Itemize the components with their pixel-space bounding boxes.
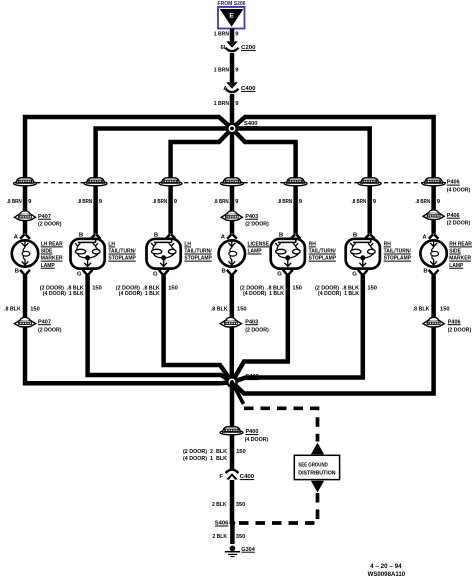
svg-text:150: 150: [236, 449, 246, 455]
svg-text:G: G: [352, 271, 357, 277]
svg-text:G: G: [277, 271, 282, 277]
svg-text:.8 BRN: .8 BRN: [214, 199, 229, 205]
splice S400: [227, 121, 258, 133]
svg-text:.8 BLK: .8 BLK: [413, 307, 430, 313]
svg-text:150: 150: [367, 285, 377, 291]
off-page triangle symbol E: [218, 7, 245, 29]
svg-text:1 BRN: 1 BRN: [214, 32, 229, 38]
pin B terminal of license lamp: [222, 269, 237, 276]
wire label .8 BRN 9 col2: [77, 199, 102, 205]
svg-text:9: 9: [28, 199, 32, 205]
wire LH stoplamp2 G to S402 .8 BLK 150: [164, 275, 232, 382]
svg-text:A: A: [14, 234, 19, 240]
pin B terminal of LH tail/turn stoplamp 1: [79, 232, 101, 239]
wire (dashed) S402 to see-ground-distribution: [232, 382, 244, 404]
lamp RH rear side marker lamp: [420, 240, 472, 268]
svg-text:150: 150: [168, 285, 178, 291]
grommet col5 at body panel: [284, 181, 307, 186]
svg-text:150: 150: [237, 307, 247, 313]
svg-text:(4 DOOR) 1 BLK: (4 DOOR) 1 BLK: [243, 291, 285, 297]
svg-text:(2 DOOR): (2 DOOR): [448, 327, 472, 333]
footer date and drawing number: [368, 564, 406, 578]
svg-text:(2 DOOR): (2 DOOR): [245, 327, 269, 333]
wire (dashed) ground distribution to S406: [237, 493, 318, 523]
svg-text:E: E: [229, 13, 234, 20]
svg-text:(4 DOOR) 1 BLK: (4 DOOR) 1 BLK: [318, 291, 360, 297]
connector P403 (2 DOOR) bottom: [220, 317, 269, 333]
body panel line (dashed): [14, 182, 446, 184]
wire RH marker B to S402 .8 BLK 150: [232, 275, 434, 393]
svg-text:9: 9: [174, 199, 178, 205]
pin G terminal of RH tail/turn stoplamp 1: [277, 270, 292, 278]
wire S400 to license lamp: [230, 129, 235, 234]
grommet col4 at body panel: [221, 181, 244, 186]
svg-text:1 BRN: 1 BRN: [214, 101, 229, 107]
svg-text:350: 350: [236, 534, 246, 540]
wire RH stoplamp1 G to S402 .8 BLK 150: [232, 275, 288, 382]
svg-text:A: A: [223, 86, 228, 92]
svg-text:2 BLK: 2 BLK: [212, 502, 227, 508]
svg-text:A: A: [221, 234, 226, 240]
svg-text:9: 9: [235, 67, 239, 73]
svg-text:WS0098A110: WS0098A110: [368, 572, 406, 578]
svg-text:.8 BLK: .8 BLK: [4, 307, 21, 313]
pin A terminal of LH rear side marker lamp: [14, 234, 30, 240]
wire LH marker B to S402 .8 BLK 150: [25, 275, 232, 383]
lamp RH tail/turn stoplamp 1: [271, 239, 336, 269]
grommet col2 at body panel: [84, 181, 107, 186]
connector C400 pin A: [223, 82, 256, 92]
svg-text:9: 9: [299, 199, 303, 205]
wire 1 BRN 9 from C200 to C400: [214, 53, 240, 85]
svg-text:6L: 6L: [221, 45, 228, 51]
svg-text:B: B: [279, 232, 283, 238]
svg-text:.8 BRN: .8 BRN: [352, 199, 367, 205]
wire LH stoplamp1 G to S402 .8 BLK 150: [88, 275, 232, 382]
svg-text:.8 BLK: .8 BLK: [211, 307, 228, 313]
wire license lamp B to S402 .8 BLK 150: [230, 275, 235, 382]
pin G terminal of LH tail/turn stoplamp 1: [77, 270, 92, 278]
svg-text:(2 DOOR): (2 DOOR): [447, 220, 471, 226]
pin B terminal of LH tail/turn stoplamp 2: [154, 232, 176, 239]
ground G304: [225, 546, 256, 557]
svg-text:B: B: [154, 232, 158, 238]
svg-text:(4 DOOR) 1 BLK: (4 DOOR) 1 BLK: [183, 456, 228, 462]
connector P407 (2 DOOR) bottom: [14, 317, 61, 333]
wire S400 to LH tail/turn stoplamp 2: [171, 129, 232, 234]
grommet col6 at body panel: [358, 181, 381, 186]
wire label .8 BRN 9 col3: [152, 199, 177, 205]
wire label 2 BLK 150: [183, 449, 246, 462]
pin G terminal of LH tail/turn stoplamp 2: [153, 270, 168, 278]
label FROM S206: [218, 1, 246, 7]
grommet col7 at body panel: [422, 181, 445, 186]
svg-text:9: 9: [235, 199, 239, 205]
svg-text:(2 DOOR): (2 DOOR): [245, 221, 269, 227]
svg-text:.8 BRN: .8 BRN: [152, 199, 167, 205]
svg-text:9: 9: [373, 199, 377, 205]
svg-text:(2 DOOR): (2 DOOR): [38, 327, 62, 333]
svg-text:(4 DOOR) 1 BLK: (4 DOOR) 1 BLK: [43, 291, 85, 297]
pin B terminal of RH tail/turn stoplamp 1: [279, 232, 301, 239]
pin B terminal of RH rear side marker lamp: [423, 269, 438, 276]
connector P403 (2 DOOR) top: [221, 211, 269, 228]
svg-text:.8 BRN: .8 BRN: [277, 199, 292, 205]
svg-text:B: B: [79, 232, 83, 238]
svg-text:150: 150: [292, 285, 302, 291]
svg-text:G: G: [153, 271, 158, 277]
svg-text:150: 150: [30, 307, 40, 313]
svg-text:9: 9: [437, 199, 441, 205]
wire 1 BRN 9 from E to C200: [214, 29, 240, 45]
pin B terminal of LH rear side marker lamp: [15, 269, 30, 276]
pin A terminal of license lamp: [221, 234, 237, 240]
svg-text:(4 DOOR): (4 DOOR): [447, 188, 471, 194]
lamp LH rear side marker lamp: [12, 240, 64, 268]
svg-text:4 – 20 – 94: 4 – 20 – 94: [370, 564, 402, 570]
svg-text:G: G: [77, 271, 82, 277]
connector P400 (4 DOOR): [220, 427, 268, 443]
wire 1 BRN 9 from C400 to S400: [214, 94, 240, 129]
splice S402: [227, 374, 259, 386]
svg-text:150: 150: [92, 285, 102, 291]
svg-text:A: A: [422, 234, 427, 240]
pin B terminal of RH tail/turn stoplamp 2: [353, 232, 375, 239]
arrow into ground distribution box: [311, 443, 324, 455]
svg-text:DISTRIBUTION: DISTRIBUTION: [298, 470, 335, 476]
svg-text:150: 150: [440, 307, 450, 313]
svg-text:350: 350: [236, 502, 246, 508]
svg-text:9: 9: [99, 199, 103, 205]
lamp license lamp: [219, 240, 269, 266]
svg-text:B: B: [222, 269, 226, 275]
wire label .8 BRN 9 col1: [7, 199, 32, 205]
lamp LH tail/turn stoplamp 2: [147, 239, 212, 269]
wire 2 BLK 350 to S406: [212, 480, 246, 523]
svg-text:F: F: [219, 474, 223, 480]
wire label .8 BRN 9 col7: [415, 199, 440, 205]
svg-text:.8 BRN: .8 BRN: [77, 199, 92, 205]
wire S400 to RH rear side marker lamp: [232, 117, 434, 234]
connector P406 (2 DOOR) bottom: [423, 317, 471, 333]
svg-text:(2 DOOR): (2 DOOR): [38, 221, 62, 227]
wire label .8 BRN 9 col5: [277, 199, 302, 205]
svg-text:B: B: [423, 269, 427, 275]
wire S400 to RH tail/turn stoplamp 2: [232, 129, 370, 234]
svg-text:9: 9: [235, 101, 239, 107]
connector P406 (4 DOOR) label: [447, 180, 471, 194]
wire S400 to LH tail/turn stoplamp 1: [96, 129, 232, 234]
svg-text:(2 DOOR) 2 BLK: (2 DOOR) 2 BLK: [183, 449, 228, 455]
svg-text:(4 DOOR) 1 BLK: (4 DOOR) 1 BLK: [119, 291, 161, 297]
svg-text:B: B: [15, 269, 19, 275]
splice S406: [215, 520, 236, 527]
connector P406 (2 DOOR) top: [423, 210, 470, 227]
wire label .8 BRN 9 col6: [352, 199, 377, 205]
svg-text:1 BRN: 1 BRN: [214, 67, 229, 73]
arrow out of ground distribution box: [311, 481, 324, 493]
svg-text:B: B: [353, 232, 357, 238]
wire label .8 BRN 9 col4: [214, 199, 239, 205]
svg-text:SEE GROUND: SEE GROUND: [298, 462, 328, 468]
svg-text:.8 BRN: .8 BRN: [7, 199, 22, 205]
wire 2 BLK 350 to G304: [213, 523, 247, 544]
connector C400 pin F (bottom): [219, 470, 255, 481]
svg-text:9: 9: [235, 32, 239, 38]
svg-text:(4 DOOR): (4 DOOR): [245, 437, 269, 443]
pin G terminal of RH tail/turn stoplamp 2: [352, 270, 367, 278]
lamp RH tail/turn stoplamp 2: [346, 239, 411, 269]
grommet col1 at body panel: [14, 181, 37, 186]
connector C200 pin 6L: [221, 41, 257, 51]
wire S402 down to C400: [230, 382, 235, 470]
wire RH stoplamp2 G to S402 .8 BLK 150: [232, 275, 363, 382]
grommet col3 at body panel: [159, 181, 182, 186]
wire S400 to RH tail/turn stoplamp 1: [232, 129, 296, 234]
svg-text:2 BLK: 2 BLK: [213, 534, 228, 540]
svg-text:.8 BRN: .8 BRN: [415, 199, 430, 205]
wire S400 to LH rear side marker lamp: [25, 117, 232, 234]
pin A terminal of RH rear side marker lamp: [422, 234, 438, 240]
see ground distribution box: [294, 455, 339, 479]
connector P407 (2 DOOR) top: [14, 211, 61, 228]
lamp LH tail/turn stoplamp 1: [71, 239, 136, 269]
